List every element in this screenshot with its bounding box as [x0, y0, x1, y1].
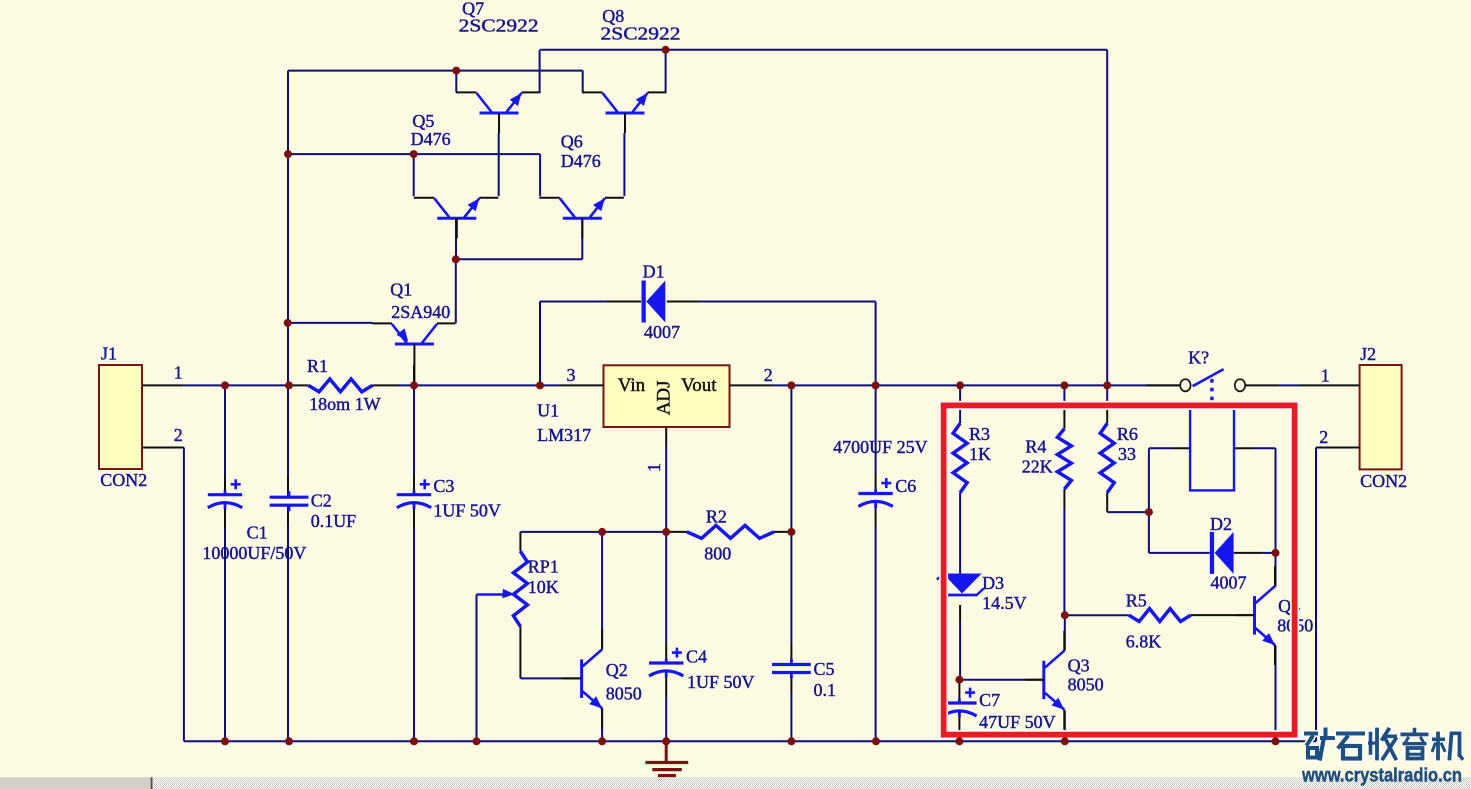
node ground Q4 emitter [1272, 737, 1280, 745]
node ADJ Q2 collector [598, 528, 606, 536]
regulator U1 body [604, 365, 730, 427]
svg-text:CON2: CON2 [100, 470, 147, 490]
svg-text:LM317: LM317 [537, 425, 591, 445]
node main rail segment switch to J2 [1246, 384, 1360, 386]
svg-text:1: 1 [174, 362, 183, 382]
svg-text:D476: D476 [561, 151, 601, 171]
node D2 Q4 collector [1272, 549, 1280, 557]
node D3 Q3 base [955, 676, 963, 684]
svg-text:0.1: 0.1 [814, 680, 837, 700]
wire R5 row [1065, 614, 1129, 616]
node ground Q2 emitter [598, 737, 606, 745]
svg-text:1K: 1K [969, 444, 991, 464]
red highlight box [944, 405, 1295, 734]
svg-text:CON2: CON2 [1360, 471, 1407, 491]
resistor R2 [687, 526, 774, 539]
wire Q2 collector up [601, 532, 603, 650]
svg-text:R6: R6 [1117, 424, 1138, 444]
scrollbar thumb [0, 777, 151, 789]
svg-text:1UF 50V: 1UF 50V [433, 500, 501, 520]
wire ADJ node row [520, 531, 791, 533]
wire J2 pin2 down [1316, 448, 1360, 742]
svg-text:U1: U1 [537, 401, 559, 421]
wire Q3 base row [959, 679, 1043, 681]
node rail Vout [787, 381, 795, 389]
wire Q1 emitter to left bus [288, 322, 373, 324]
svg-text:D476: D476 [411, 129, 451, 149]
svg-text:4007: 4007 [644, 322, 680, 342]
wire C3 vertical [413, 385, 415, 741]
wire R4 legs [1063, 385, 1065, 615]
node ADJ C4 [662, 528, 670, 536]
svg-text:C5: C5 [814, 659, 835, 679]
wire Q5 Q6 base tie [456, 218, 582, 259]
svg-text:R2: R2 [706, 506, 727, 526]
svg-text:Q3: Q3 [1068, 656, 1090, 676]
svg-text:C7: C7 [979, 690, 1000, 710]
node rail R4 [1060, 381, 1068, 389]
wire C7 leg [958, 680, 960, 742]
capacitor C1 [208, 493, 242, 496]
transistor Q1 [395, 343, 434, 346]
node Q1 emitter junction [284, 319, 292, 327]
svg-text:Q6: Q6 [561, 131, 583, 151]
node Q8 emitter junction [662, 46, 670, 54]
svg-text:C2: C2 [311, 491, 332, 511]
resistor R5 [1129, 609, 1191, 622]
potentiometer RP1 [513, 551, 527, 626]
wire coil left leg [1149, 448, 1190, 512]
wire C1 vertical [224, 385, 226, 741]
svg-text:Q1: Q1 [390, 279, 412, 299]
svg-text:2SC2922: 2SC2922 [459, 15, 539, 35]
svg-text:J1: J1 [101, 343, 117, 363]
logo char shou [1367, 734, 1374, 754]
svg-text:8050: 8050 [606, 683, 642, 703]
wire Q5 collector to rail [413, 154, 415, 196]
transistor Q6 [563, 217, 602, 220]
svg-text:18om 1W: 18om 1W [309, 394, 381, 414]
wire base tie down to Q1 collector [455, 259, 457, 323]
wire rail Q7 collector feed [288, 71, 583, 93]
transistor Q2 [580, 659, 583, 698]
svg-text:K?: K? [1188, 347, 1209, 367]
wire Q7 base to Q5 emitter [498, 133, 500, 196]
svg-text:2SA940: 2SA940 [391, 302, 450, 322]
wire C4 vertical [665, 532, 667, 741]
wire Q8 emitter up [665, 50, 667, 93]
svg-text:RP1: RP1 [528, 556, 559, 576]
wire RP1 bottom to Q2 base [520, 626, 580, 678]
resistor R4 [1057, 429, 1071, 489]
svg-text:D3: D3 [982, 573, 1004, 593]
node main rail segment J1 to R1 [142, 384, 308, 386]
wire U1 ADJ pin [665, 427, 667, 532]
svg-text:2: 2 [764, 365, 773, 385]
node rail C1 [221, 381, 229, 389]
resistor R6 [1100, 423, 1114, 492]
diode D1 [642, 281, 646, 323]
wire Q7 emitter up [539, 50, 541, 93]
svg-text:2: 2 [1319, 427, 1328, 447]
svg-text:C1: C1 [247, 523, 268, 543]
node ground C1 [221, 737, 229, 745]
svg-text:R1: R1 [307, 356, 328, 376]
capacitor C5 [772, 663, 811, 666]
connector J2 body [1360, 365, 1402, 469]
switch K? left contact [1147, 384, 1180, 386]
node ground C6 [872, 737, 880, 745]
svg-text:6.8K: 6.8K [1126, 631, 1162, 651]
scrollbar thumb edge [151, 777, 153, 789]
svg-text:1: 1 [644, 463, 664, 472]
node ground C3 [410, 737, 418, 745]
svg-text:4007: 4007 [1211, 573, 1247, 593]
connector J1 body [99, 365, 142, 469]
svg-text:14.5V: 14.5V [982, 593, 1027, 613]
resistor R1 [308, 379, 372, 392]
transistor Q4 [1253, 596, 1256, 635]
svg-text:R5: R5 [1126, 591, 1147, 611]
transistor Q8 [606, 112, 645, 115]
ground [645, 741, 688, 775]
relay K? actuation dashes [1210, 379, 1213, 408]
node Q5 collector junction [410, 150, 418, 158]
capacitor C7 [942, 701, 976, 704]
node ground C7 [955, 737, 963, 745]
wire Q4 emitter down [1275, 646, 1277, 742]
wire D1 left leg [540, 302, 641, 386]
node base tie junction [452, 255, 460, 263]
zener diode D3 [943, 574, 982, 594]
svg-text:www.crystalradio.cn: www.crystalradio.cn [1301, 766, 1462, 787]
wire D2 row [1149, 512, 1276, 553]
svg-text:C6: C6 [895, 476, 916, 496]
wire Q3 collector up [1064, 615, 1066, 650]
wire Q4 base pin [1191, 614, 1254, 616]
svg-text:R3: R3 [969, 424, 990, 444]
svg-text:Vin: Vin [618, 375, 646, 396]
node Q7 collector junction [452, 67, 460, 75]
logo char ji [1435, 734, 1442, 759]
wire D1 right to C6 leg [667, 302, 876, 742]
node rail C2 [285, 381, 293, 389]
svg-text:10000UF/50V: 10000UF/50V [202, 543, 306, 563]
wire bottom ground rail [184, 740, 1316, 742]
svg-text:2SC2922: 2SC2922 [601, 24, 681, 44]
wire Q7 collector to rail [455, 71, 457, 93]
wire D3 to node [959, 605, 961, 680]
node main rail segment U1 to switch [730, 384, 1181, 386]
node rail R6 [1103, 381, 1111, 389]
node ground C4 [662, 737, 670, 745]
node rail D1 left [536, 381, 544, 389]
svg-text:Vout: Vout [681, 375, 717, 396]
node R4 R5 Q3 collector [1061, 611, 1069, 619]
transistor Q3 [1042, 661, 1045, 700]
wire RP1 wiper to ground [477, 595, 501, 742]
transistor Q7 [480, 112, 519, 115]
capacitor C3 [397, 493, 431, 496]
node rail C6 [872, 381, 880, 389]
wire top rail +V [540, 50, 1107, 386]
scrollbar band [0, 777, 1471, 789]
switch K? lever [1193, 369, 1224, 386]
svg-text:Q2: Q2 [606, 660, 628, 680]
node rail R3 [956, 381, 964, 389]
wire Q8 base to Q6 emitter [623, 133, 625, 196]
node ground C5 [787, 737, 795, 745]
resistor R3 [953, 423, 967, 492]
wire J1 pin2 to ground rail [142, 448, 184, 742]
node main rail segment R1 to U1 [373, 384, 604, 386]
svg-text:8050: 8050 [1068, 675, 1104, 695]
wire left vertical bus [287, 71, 289, 742]
svg-text:1: 1 [1321, 365, 1330, 385]
svg-text:D2: D2 [1210, 514, 1232, 534]
svg-text:C3: C3 [433, 476, 454, 496]
node ground RP1 wiper [473, 737, 481, 745]
capacitor C2 [270, 496, 309, 499]
svg-text:33: 33 [1118, 444, 1136, 464]
wire Vout node down [790, 385, 792, 741]
svg-text:2: 2 [174, 425, 183, 445]
node ADJ R2 right [787, 528, 795, 536]
wire R6 leg and elbow [1107, 385, 1149, 512]
svg-text:4700UF 25V: 4700UF 25V [833, 437, 928, 457]
capacitor C6 [858, 492, 892, 495]
node ground C2 [285, 737, 293, 745]
svg-text:J2: J2 [1360, 344, 1376, 364]
svg-text:D1: D1 [643, 262, 665, 282]
wire R3 leg [959, 385, 961, 574]
node rail C3 [410, 381, 418, 389]
wire Q1 base down [413, 365, 415, 385]
transistor Q5 [437, 217, 476, 220]
svg-text:1UF 50V: 1UF 50V [687, 672, 755, 692]
svg-text:10K: 10K [528, 577, 559, 597]
wire D2 node to Q4 collector [1275, 553, 1277, 587]
svg-text:C4: C4 [686, 647, 707, 667]
wire Q3 emitter down [1064, 711, 1066, 742]
svg-text:0.1UF: 0.1UF [311, 511, 357, 531]
svg-text:3: 3 [567, 365, 576, 385]
wire RP1 top leg [519, 532, 521, 551]
svg-text:ADJ: ADJ [653, 380, 674, 415]
node R6 coil [1145, 508, 1153, 516]
logo char shi [1335, 730, 1367, 737]
node ground Q3 emitter [1061, 737, 1069, 745]
wire coil right leg [1234, 448, 1276, 553]
wire rail Q5 collector feed [288, 154, 540, 196]
logo char kuang [1303, 730, 1320, 737]
svg-text:800: 800 [704, 544, 731, 564]
diode D2 [1210, 532, 1214, 574]
svg-text:47UF 50V: 47UF 50V [979, 712, 1056, 732]
svg-text:R4: R4 [1025, 436, 1046, 456]
switch K? right contact [1235, 379, 1245, 391]
capacitor C4 [649, 661, 683, 664]
relay K? coil [1190, 406, 1234, 490]
node left bus rail junction [284, 150, 292, 158]
logo char yin [1411, 730, 1418, 734]
svg-text:22K: 22K [1022, 457, 1053, 477]
wire Q2 emitter down [601, 708, 603, 741]
